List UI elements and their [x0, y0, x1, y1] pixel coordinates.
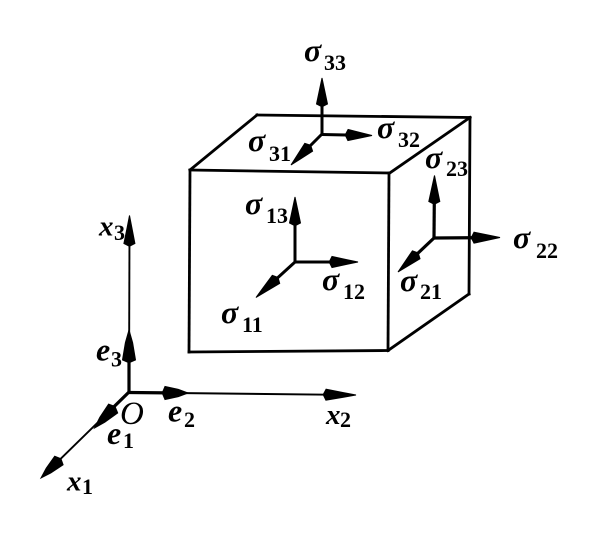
- arrow sigma31 down-left: [301, 134, 322, 155]
- svg-text:σ: σ: [400, 262, 418, 298]
- arrow sigma21 down-left: [408, 238, 434, 263]
- arrow sigma32 right: [322, 133, 359, 137]
- node front face arrow center: [256, 197, 358, 298]
- svg-text:e: e: [168, 393, 182, 429]
- svg-text:3: 3: [111, 347, 122, 372]
- svg-text:33: 33: [324, 50, 346, 75]
- coordinate axes: [41, 216, 356, 479]
- svg-text:σ: σ: [425, 139, 443, 175]
- wire top back edge: [257, 115, 470, 118]
- axis x1 down-left: [51, 392, 129, 468]
- wire right back vertical edge: [469, 118, 470, 295]
- svg-text:x: x: [66, 466, 82, 498]
- wire top left slant edge: [190, 115, 257, 170]
- arrow sigma23 up: [432, 190, 436, 238]
- node right face arrow center: [398, 176, 500, 273]
- arrow sigma12 right: [295, 261, 344, 264]
- svg-text:12: 12: [343, 279, 365, 304]
- svg-text:2: 2: [340, 407, 351, 432]
- arrow sigma22 right: [434, 236, 486, 240]
- svg-text:x: x: [98, 211, 114, 243]
- arrow sigma13 up: [294, 211, 297, 262]
- cube edges: [189, 115, 470, 352]
- arrow sigma11 down-left: [267, 262, 295, 288]
- wire front left edge: [189, 170, 190, 352]
- axis x2 horizontal: [129, 393, 340, 395]
- svg-text:3: 3: [114, 220, 125, 245]
- svg-text:σ: σ: [304, 32, 322, 68]
- vector e2 arrowhead: [163, 387, 189, 400]
- axis x3 vertical: [128, 231, 131, 392]
- svg-text:σ: σ: [322, 261, 340, 297]
- node top face arrow center: [291, 78, 372, 165]
- svg-text:e: e: [107, 415, 121, 451]
- vector e3 stem: [127, 336, 130, 392]
- svg-text:32: 32: [398, 127, 420, 152]
- svg-text:O: O: [120, 396, 144, 432]
- wire front top edge: [190, 170, 389, 173]
- vector e1 stem: [100, 392, 129, 420]
- svg-text:σ: σ: [513, 219, 531, 255]
- wire front right edge: [388, 173, 389, 351]
- svg-text:x: x: [325, 399, 341, 431]
- svg-text:31: 31: [269, 141, 291, 166]
- vector e2 stem: [129, 391, 180, 395]
- svg-text:22: 22: [536, 238, 558, 263]
- wire front bottom edge: [189, 351, 388, 353]
- svg-text:2: 2: [184, 407, 195, 432]
- arrow sigma33 up: [321, 92, 324, 134]
- wire right bottom slant edge: [388, 294, 469, 351]
- svg-text:1: 1: [82, 474, 93, 499]
- vector e3 arrowhead: [123, 330, 136, 363]
- svg-text:σ: σ: [245, 185, 263, 221]
- svg-text:1: 1: [123, 428, 134, 453]
- svg-text:σ: σ: [221, 294, 239, 330]
- vector e1 arrowhead: [95, 404, 118, 428]
- svg-text:σ: σ: [248, 122, 266, 158]
- svg-text:e: e: [96, 332, 110, 368]
- svg-text:13: 13: [266, 203, 288, 228]
- wire top right slant edge: [389, 118, 470, 174]
- svg-text:23: 23: [446, 156, 468, 181]
- svg-text:σ: σ: [377, 109, 395, 145]
- svg-text:21: 21: [420, 279, 442, 304]
- svg-text:11: 11: [242, 312, 263, 337]
